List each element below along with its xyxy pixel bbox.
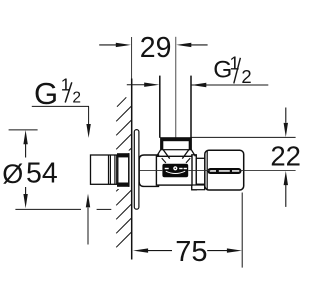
centerline bbox=[103, 169, 117, 171]
white cover for pipe through wall bbox=[88, 151, 131, 190]
outlet nut bbox=[161, 138, 192, 150]
funnel transition bbox=[157, 150, 196, 159]
wall hatching bbox=[116, 97, 132, 247]
dimension Dia 54 bbox=[9, 129, 38, 131]
supply stub bbox=[91, 155, 118, 184]
svg-text:Ø: Ø bbox=[2, 159, 23, 189]
outlet axis extension bbox=[175, 37, 177, 149]
backnut bbox=[192, 155, 197, 190]
dimension 29 bbox=[99, 44, 207, 46]
foot step bbox=[192, 185, 205, 190]
dimension 22 bbox=[192, 136, 296, 138]
svg-text:29: 29 bbox=[140, 32, 172, 64]
centerline over parts bbox=[140, 169, 296, 171]
lower pointer to inlet bbox=[87, 208, 89, 245]
collar ring lines bbox=[109, 155, 117, 184]
svg-text:75: 75 bbox=[175, 236, 207, 268]
dimension G1/2 top bbox=[127, 84, 268, 86]
svg-text:G: G bbox=[34, 76, 58, 111]
dimension 75 bbox=[241, 193, 243, 268]
stem bbox=[196, 158, 205, 184]
knob bbox=[205, 150, 244, 190]
svg-text:2: 2 bbox=[241, 66, 251, 87]
body bbox=[156, 156, 192, 185]
label plate bbox=[162, 164, 188, 177]
svg-text:1: 1 bbox=[230, 54, 240, 74]
thread block bbox=[117, 153, 129, 157]
wall face line bbox=[131, 37, 133, 80]
svg-text:22: 22 bbox=[270, 140, 300, 171]
inlet boss bbox=[139, 155, 158, 186]
knob grip slot bbox=[207, 168, 241, 174]
vertical outlet pipe bbox=[160, 76, 191, 138]
svg-text:2: 2 bbox=[72, 89, 81, 106]
flange bbox=[134, 130, 139, 210]
svg-text:54: 54 bbox=[26, 158, 58, 190]
